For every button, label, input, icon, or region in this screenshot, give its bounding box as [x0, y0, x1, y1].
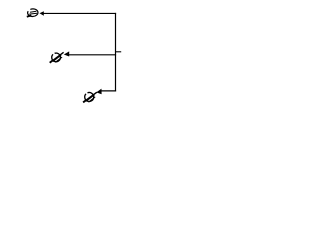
arrowhead into node A [40, 11, 44, 16]
node B: circle glyph with diagonal shaft and hatching (middle) [50, 52, 64, 62]
node C: circle glyph with diagonal shaft and hatching (bottom) [83, 92, 97, 102]
wire: vertical bus [115, 13, 117, 92]
arrowhead into node B [64, 51, 69, 56]
background [0, 0, 150, 114]
wire: bottom horizontal from bus to node C [100, 90, 116, 92]
wire: top horizontal from node A to bus [41, 12, 116, 14]
wire: middle horizontal from node B to bus [68, 54, 117, 56]
node A: circle glyph with shaft and hatching (top-left) [27, 9, 38, 17]
wire: right stub [116, 51, 122, 53]
arrowhead into node C [96, 89, 101, 95]
